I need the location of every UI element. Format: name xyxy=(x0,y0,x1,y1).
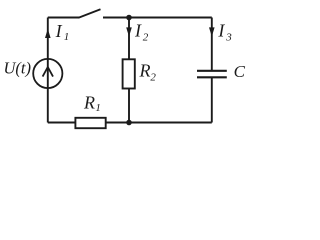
svg-text:R: R xyxy=(83,93,95,113)
svg-text:3: 3 xyxy=(225,32,232,44)
wire left branch vertical xyxy=(47,18,49,123)
switch S (open blade) xyxy=(79,9,101,18)
label R2 xyxy=(139,60,157,83)
wire top rail left segment xyxy=(48,17,79,19)
current source U(t) xyxy=(33,59,62,88)
svg-text:2: 2 xyxy=(143,32,149,44)
wire middle branch upper xyxy=(128,18,130,60)
arrow I1 xyxy=(45,29,51,38)
wire middle branch lower xyxy=(128,89,130,123)
svg-text:R: R xyxy=(139,60,151,80)
svg-text:I: I xyxy=(55,21,63,41)
svg-text:C: C xyxy=(234,62,246,81)
svg-text:I: I xyxy=(217,20,225,40)
label I1 xyxy=(55,21,70,43)
label I2 xyxy=(134,20,149,43)
svg-text:1: 1 xyxy=(95,102,101,114)
arrow I2 xyxy=(126,27,132,36)
svg-text:I: I xyxy=(134,20,142,40)
node bottom junction xyxy=(126,120,132,126)
resistor R1 xyxy=(75,118,105,128)
node top junction xyxy=(126,15,132,21)
wire top rail right segment xyxy=(103,17,212,19)
wire right branch upper xyxy=(211,18,213,71)
arrow I3 xyxy=(209,27,215,36)
svg-text:1: 1 xyxy=(64,31,70,43)
label I3 xyxy=(217,20,232,43)
wire bottom rail xyxy=(48,122,212,124)
resistor R2 xyxy=(123,59,135,88)
svg-text:U(t): U(t) xyxy=(4,59,32,78)
label R1 xyxy=(83,93,101,115)
svg-text:2: 2 xyxy=(150,71,156,83)
capacitor C xyxy=(197,71,227,78)
wire right branch lower xyxy=(211,78,213,123)
